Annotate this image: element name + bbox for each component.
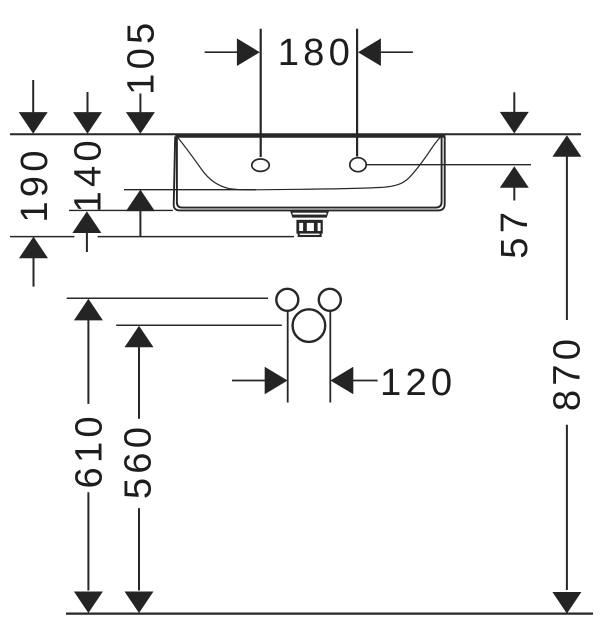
up arrow 190 bottom xyxy=(19,237,48,259)
top view small circle left xyxy=(276,289,298,311)
wall line xyxy=(10,133,581,135)
610 down arrow xyxy=(74,592,103,614)
dim 180 right arrow xyxy=(358,38,381,66)
top view line upper xyxy=(67,297,268,299)
basin top edge (thick) xyxy=(175,134,445,138)
180 extension line right xyxy=(356,29,358,157)
120 extension line left xyxy=(287,311,289,403)
top view line lower xyxy=(116,324,282,326)
drain body xyxy=(296,220,322,234)
120 right-pointing arrow xyxy=(265,367,288,395)
870 down arrow xyxy=(552,592,581,614)
57 leader line xyxy=(366,164,531,166)
svg-text:560: 560 xyxy=(116,423,159,499)
560 shaft lower xyxy=(138,508,140,590)
faucet hole left xyxy=(252,159,269,171)
drain body slot right xyxy=(318,223,321,231)
870 shaft upper xyxy=(566,156,568,321)
560 shaft upper xyxy=(138,346,140,419)
svg-text:180: 180 xyxy=(278,31,354,74)
basin interior curve xyxy=(178,136,442,190)
dim 180 left arrow xyxy=(237,38,260,66)
floor line xyxy=(66,612,593,614)
610 shaft lower xyxy=(87,492,89,590)
57 up arrow xyxy=(500,166,529,188)
560 down arrow xyxy=(125,592,154,614)
up arrow 140 bottom xyxy=(72,211,101,233)
top view large circle xyxy=(293,309,326,342)
610 up arrow xyxy=(74,299,103,321)
svg-text:870: 870 xyxy=(545,335,588,411)
svg-text:105: 105 xyxy=(120,19,163,95)
svg-text:140: 140 xyxy=(66,136,109,212)
190 reference line xyxy=(10,236,294,238)
basin inner outline xyxy=(177,138,442,208)
down arrow at 87 (140 top) xyxy=(73,112,102,134)
drain flange (two tiers) xyxy=(290,210,330,218)
120 extension line right xyxy=(329,311,331,403)
drain flange white groove xyxy=(293,213,327,215)
drain body slot left xyxy=(299,223,303,231)
560 up arrow xyxy=(125,326,154,348)
105 reference line xyxy=(124,189,256,191)
faucet hole right xyxy=(350,158,366,172)
drain body slot center xyxy=(307,223,314,231)
870 shaft lower xyxy=(566,425,568,590)
svg-text:57: 57 xyxy=(493,208,536,259)
down arrow at 140 (105 top) xyxy=(126,112,155,134)
180 extension line left xyxy=(260,29,262,157)
drain foot xyxy=(299,232,321,236)
870 up arrow xyxy=(552,135,581,157)
610 shaft upper xyxy=(87,319,89,404)
120 left-pointing arrow xyxy=(330,367,353,395)
svg-text:120: 120 xyxy=(380,361,456,404)
up arrow 105 bottom xyxy=(126,190,155,212)
basin outer outline xyxy=(174,137,445,211)
140 reference line xyxy=(69,209,173,211)
57 down arrow xyxy=(500,112,529,134)
top view small circle right xyxy=(319,289,341,311)
down arrow at 33 (190 top) xyxy=(19,112,48,134)
svg-text:610: 610 xyxy=(68,412,111,488)
svg-text:190: 190 xyxy=(13,146,56,222)
